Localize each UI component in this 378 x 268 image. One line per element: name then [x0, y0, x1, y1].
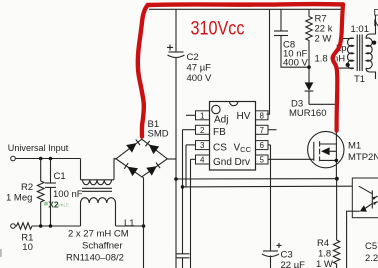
- svg-text:MU: MU: [374, 18, 378, 29]
- svg-text:HV: HV: [237, 111, 251, 122]
- red marker trace left side: [138, 6, 148, 137]
- svg-text:MUR160: MUR160: [289, 108, 327, 119]
- svg-text:1.8: 1.8: [318, 249, 331, 260]
- diode D3 MUR160: [305, 67, 314, 104]
- node input terminal bottom: [11, 224, 16, 229]
- svg-text:M1: M1: [348, 141, 361, 152]
- node C1 bottom: [49, 224, 53, 228]
- svg-text:3: 3: [200, 141, 205, 150]
- svg-text:6: 6: [260, 141, 265, 150]
- svg-text:Drv: Drv: [235, 157, 251, 168]
- svg-text:FB: FB: [213, 127, 226, 138]
- inductor L1 core: [82, 188, 112, 191]
- svg-text:T1: T1: [354, 74, 365, 85]
- svg-text:310Vcc: 310Vcc: [191, 18, 245, 40]
- wire bridge right vertex to bus: [168, 158, 177, 160]
- wire line input top: [15, 158, 80, 160]
- wire FB vertical pin2 down: [182, 130, 184, 254]
- wire Lp bottom to MOSFET drain: [336, 68, 353, 142]
- bridge rectifier B1: [116, 139, 167, 177]
- svg-text:1: 1: [200, 111, 205, 120]
- node R2 bottom: [39, 224, 43, 228]
- pin 6: [256, 141, 271, 151]
- svg-text:2: 2: [200, 126, 205, 135]
- wire line A source sense: [176, 178, 337, 180]
- svg-text:D2: D2: [374, 8, 378, 19]
- inductor L1 common-mode choke top winding: [81, 159, 117, 185]
- pin 7: [256, 125, 277, 135]
- wire line B feedback to optocoupler: [183, 185, 353, 188]
- node input terminal top: [11, 156, 16, 161]
- wire bridge bottom vertex up: [142, 177, 144, 227]
- IC U1 controller: [210, 102, 256, 171]
- pin 8: [256, 111, 269, 121]
- transformer T1 secondary winding: [366, 38, 372, 69]
- svg-text:1:01: 1:01: [351, 24, 370, 35]
- svg-text:R4: R4: [317, 238, 329, 249]
- svg-text:MTP2N6: MTP2N6: [348, 152, 378, 163]
- svg-text:4: 4: [200, 156, 205, 165]
- svg-text:Universal Input: Universal Input: [8, 143, 69, 153]
- svg-text:5: 5: [260, 156, 265, 165]
- svg-text:47 µF: 47 µF: [187, 63, 212, 74]
- transistor M1 MOSFET: [308, 131, 344, 178]
- pin 2: [183, 125, 210, 135]
- svg-text:VCC: VCC: [234, 143, 252, 155]
- resistor R1: [15, 223, 33, 229]
- node FB junction: [181, 185, 185, 189]
- svg-text:wrtLE: wrtLE: [58, 203, 70, 208]
- transformer T1 core: [357, 35, 362, 72]
- capacitor on FB line: [176, 254, 190, 268]
- wire secondary bottom (clipped): [366, 68, 376, 79]
- red marker trace right side: [333, 4, 343, 130]
- capacitor C1: [45, 159, 56, 227]
- svg-text:7: 7: [260, 126, 265, 135]
- svg-text:8: 8: [260, 111, 265, 120]
- svg-text:CS: CS: [213, 143, 227, 154]
- pin 3: [186, 141, 210, 151]
- optocoupler U2: [352, 178, 378, 218]
- svg-text:2 x 27 mH CM: 2 x 27 mH CM: [68, 229, 129, 240]
- svg-text:Gnd: Gnd: [213, 157, 232, 168]
- svg-text:22 µF: 22 µF: [281, 260, 306, 268]
- svg-text:C1: C1: [54, 171, 66, 182]
- wire HV pin8 to rail: [267, 9, 270, 114]
- svg-text:2 W: 2 W: [315, 34, 332, 45]
- svg-text:10: 10: [22, 242, 33, 253]
- svg-text:C5: C5: [365, 241, 377, 252]
- capacitor C8: [274, 31, 288, 36]
- svg-text:1 Meg: 1 Meg: [6, 193, 32, 204]
- svg-text:Adj: Adj: [214, 115, 228, 126]
- wire opto emitter down: [347, 211, 353, 268]
- svg-text:100 nF: 100 nF: [53, 189, 83, 200]
- wire neutral rail to bridge bottom: [116, 225, 144, 227]
- wire Gnd vertical pin4 down: [190, 159, 192, 268]
- svg-text:RN1140–08/2: RN1140–08/2: [66, 253, 124, 264]
- node neutral junction: [142, 224, 146, 228]
- svg-text:C2: C2: [187, 52, 199, 63]
- node clamp junction: [307, 65, 311, 69]
- svg-text:1.8 mH: 1.8 mH: [315, 54, 346, 65]
- svg-text:L1: L1: [124, 218, 135, 229]
- svg-text:C3: C3: [281, 250, 293, 261]
- svg-text:R2: R2: [21, 182, 33, 193]
- wire C8 bottom to clamp node: [281, 36, 309, 68]
- wire DC bus vertical x=176 (rail to C2): [175, 9, 177, 52]
- wire Vcc pin6 down to C3: [270, 145, 272, 251]
- wire neutral down to bottom edge: [143, 226, 145, 268]
- wire neutral bottom rail: [34, 225, 81, 227]
- pin 5: [256, 155, 269, 165]
- wire secondary top to D2 (clipped): [366, 15, 376, 39]
- red marker trace top: [148, 2, 344, 7]
- wire DC bus vertical below C2 down to bottom edge: [175, 58, 177, 268]
- svg-text:400 V: 400 V: [283, 58, 308, 69]
- resistor R7: [306, 9, 312, 67]
- wire rail to Lp top (under red trace): [342, 9, 354, 38]
- pin 4: [191, 155, 210, 165]
- capacitor C2: [167, 44, 185, 57]
- inductor L1 bottom winding: [81, 198, 116, 226]
- node primary phase dot: [346, 63, 350, 67]
- resistor R4: [333, 179, 339, 268]
- resistor R2: [37, 159, 44, 227]
- svg-text:Schaffner: Schaffner: [82, 241, 123, 252]
- transformer T1 primary Lp winding: [348, 38, 354, 69]
- svg-text:2.2: 2.2: [365, 253, 378, 264]
- node C1 top: [49, 157, 53, 161]
- svg-text:1 W: 1 W: [316, 259, 333, 268]
- node M1 source junction: [335, 177, 339, 181]
- wire CS vertical pin3 down to FB node: [185, 145, 187, 187]
- node bus / line A: [174, 177, 178, 181]
- wire Drv pin5 to gate: [268, 158, 314, 160]
- svg-text:400 V: 400 V: [187, 73, 212, 84]
- pin 1: [186, 111, 210, 121]
- wire rail to C8: [280, 9, 282, 31]
- node R2 top: [39, 157, 43, 161]
- capacitor C3: [262, 243, 282, 268]
- edge artifact: [0, 249, 2, 257]
- svg-text:SMD: SMD: [148, 129, 169, 140]
- wire top +310V rail: [149, 8, 342, 10]
- wire bridge left vertex to L1: [114, 158, 116, 160]
- label X2 with watermark: [44, 200, 69, 210]
- node secondary phase dot: [372, 41, 376, 45]
- wire D3 cathode to drain: [309, 103, 336, 105]
